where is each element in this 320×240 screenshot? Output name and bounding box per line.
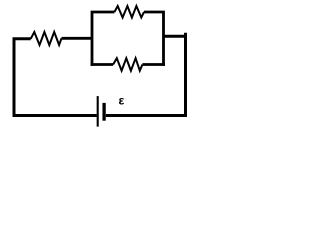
battery: long plate: [97, 96, 99, 127]
resistor R1: [31, 32, 62, 45]
svg-text:ε: ε: [119, 93, 125, 107]
wire: R1 to parallel box: [62, 37, 93, 40]
battery: short thick plate: [102, 103, 105, 121]
resistor R3 (bottom of parallel pair): [113, 58, 142, 70]
resistor R2 (top of parallel pair): [114, 6, 144, 18]
wire: outer right side + bottom-right: [106, 33, 186, 116]
wire: parallel box bottom edge: [91, 63, 165, 66]
wire: parallel box left edge, top edge and right edge: [92, 12, 164, 66]
wire: box right to outer right wire: [164, 35, 188, 38]
wire: left side + bottom-left + top-left lead: [14, 39, 97, 116]
